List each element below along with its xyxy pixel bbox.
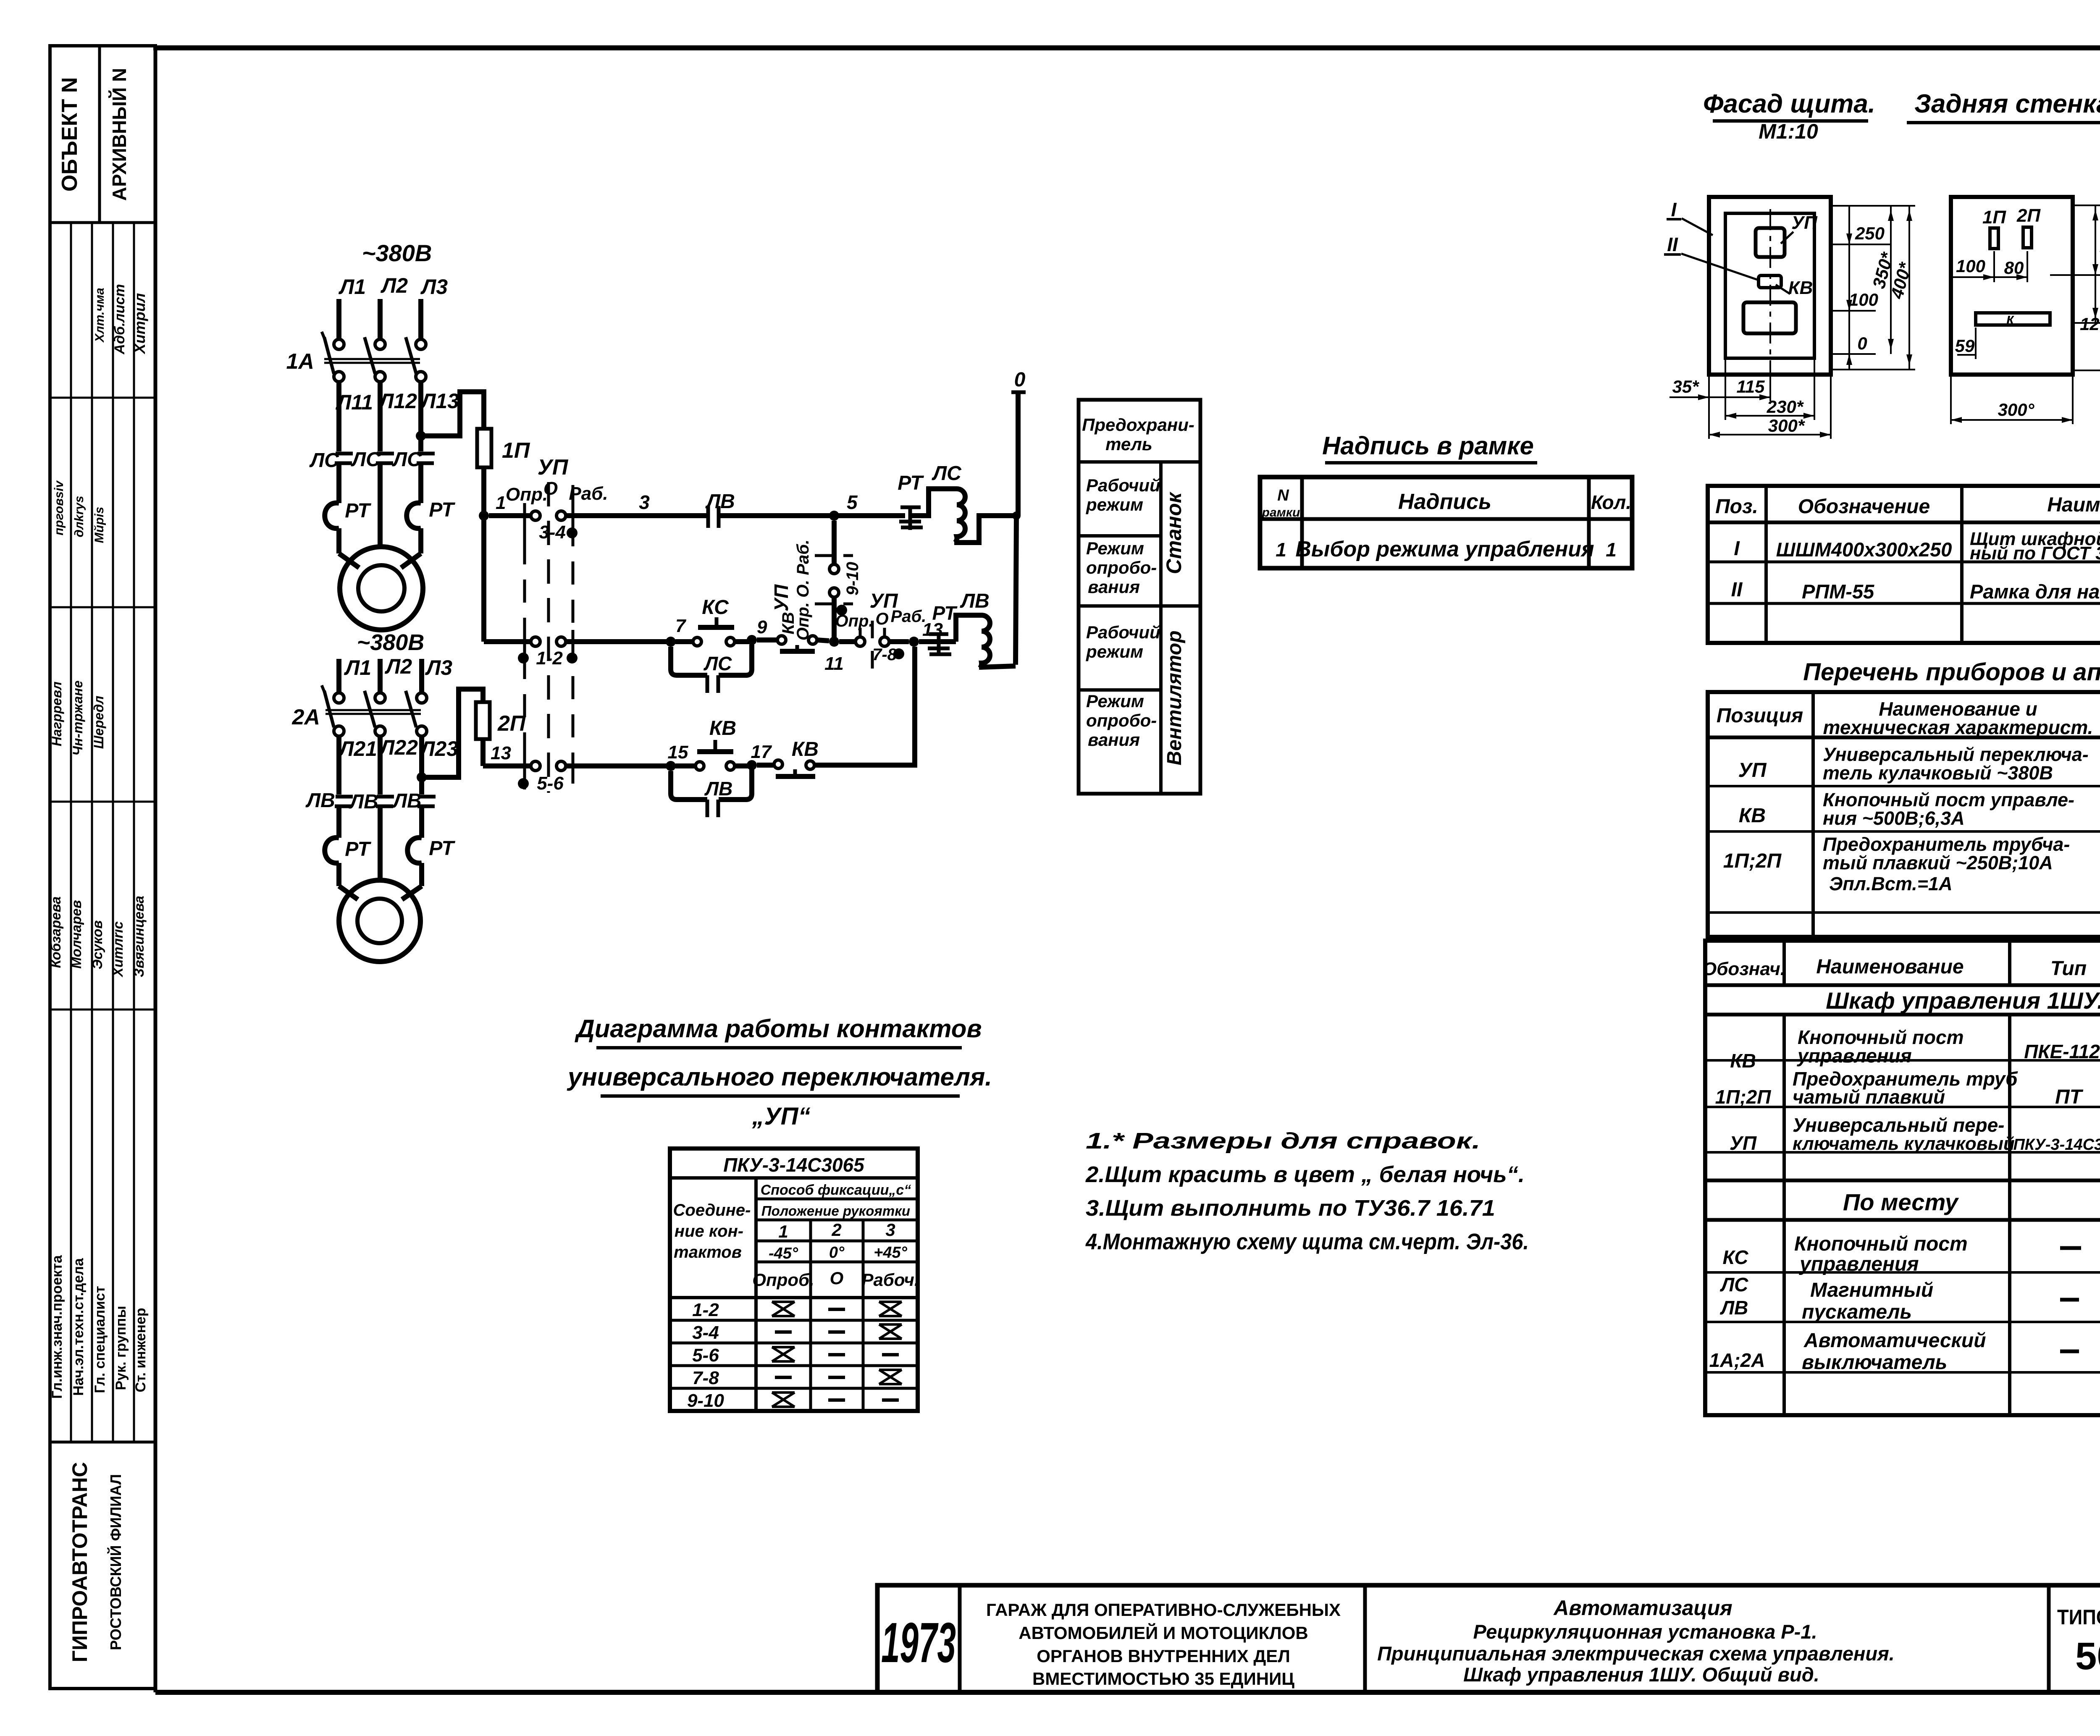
breaker 2A	[292, 685, 427, 736]
svg-text:Л1: Л1	[344, 656, 371, 679]
title facade	[1703, 89, 1875, 143]
svg-text:Л23: Л23	[419, 737, 458, 760]
svg-text:Положение рукоятки: Положение рукоятки	[761, 1203, 910, 1219]
svg-text:О: О	[543, 478, 558, 499]
svg-text:Магнитный: Магнитный	[1810, 1279, 1933, 1301]
svg-text:Рук. группы: Рук. группы	[113, 1306, 129, 1390]
coil LC	[910, 462, 1021, 543]
svg-text:Опроб.: Опроб.	[752, 1270, 814, 1290]
svg-text:тый плавкий ~250В;10А: тый плавкий ~250В;10А	[1823, 852, 2053, 873]
svg-text:КС: КС	[702, 596, 729, 619]
svg-text:Универсальный пере-: Универсальный пере-	[1793, 1114, 2005, 1136]
contact LC phase A	[309, 449, 353, 472]
svg-text:Наименование: Наименование	[2047, 494, 2100, 516]
node L13	[420, 389, 459, 413]
stamp signatures	[52, 480, 106, 543]
front panel inner	[1725, 213, 1814, 358]
svg-text:РТ: РТ	[345, 838, 371, 860]
stamp org name	[68, 1462, 124, 1663]
wire phases to LC contacts	[339, 381, 421, 451]
svg-text:УП: УП	[538, 455, 569, 480]
svg-text:КВ: КВ	[1788, 278, 1813, 298]
svg-text:5-6: 5-6	[692, 1345, 719, 1366]
contact UP 7-8	[835, 590, 926, 677]
svg-text:Л22: Л22	[379, 736, 418, 759]
spec row II	[1731, 579, 2100, 603]
perechen title	[1803, 658, 2100, 686]
svg-text:к: к	[2006, 311, 2014, 327]
svg-text:Звягинцева: Звягинцева	[131, 896, 147, 977]
svg-text:управления: управления	[1797, 1045, 1912, 1067]
svg-text:пускатель: пускатель	[1802, 1301, 1912, 1323]
svg-text:Вентилятор: Вентилятор	[1163, 630, 1186, 765]
svg-text:1: 1	[496, 493, 506, 513]
svg-text:Наименование: Наименование	[1816, 956, 1963, 978]
svg-text:Обознач.: Обознач.	[1702, 959, 1785, 979]
svg-text:Гл.инж.знач.проекта: Гл.инж.знач.проекта	[49, 1255, 65, 1399]
svg-text:Опр. О. Раб.: Опр. О. Раб.	[794, 540, 812, 640]
svg-text:3-4: 3-4	[692, 1322, 719, 1343]
POWER1	[286, 240, 484, 655]
diagram table headers	[673, 1154, 919, 1290]
svg-text:АРХИВНЫЙ N: АРХИВНЫЙ N	[108, 68, 130, 201]
svg-text:Гл. специалист: Гл. специалист	[92, 1286, 108, 1393]
svg-text:длkrys: длkrys	[72, 496, 86, 538]
POWER2	[292, 655, 483, 962]
svg-text:КВ: КВ	[709, 717, 736, 740]
wire below LV	[339, 807, 422, 880]
UP switch window	[1756, 212, 1818, 257]
legend machine test mode	[1086, 538, 1157, 597]
svg-text:17: 17	[751, 742, 772, 762]
svg-text:1П;2П: 1П;2П	[1723, 850, 1782, 872]
row LS LV	[1720, 1274, 2100, 1323]
front panel centerline	[1769, 209, 1771, 370]
svg-text:ЛС: ЛС	[309, 449, 339, 472]
node 1	[479, 493, 506, 521]
nadpis table	[1260, 477, 1632, 568]
front dims bottom	[1669, 358, 1831, 439]
LEFTSTAMP	[48, 46, 155, 1689]
svg-text:Кол.: Кол.	[1591, 491, 1631, 513]
svg-text:Л3: Л3	[425, 656, 452, 679]
legend machine work mode	[1086, 475, 1160, 514]
svg-text:2П: 2П	[497, 711, 526, 736]
svg-text:Принципиальная электрическая с: Принципиальная электрическая схема управ…	[1377, 1642, 1895, 1665]
svg-text:Шкаф управления 1ШУ. Общий вид: Шкаф управления 1ШУ. Общий вид.	[1463, 1663, 1819, 1686]
svg-text:вания: вания	[1088, 730, 1140, 750]
svg-text:1: 1	[1606, 539, 1617, 561]
svg-text:Обозначение: Обозначение	[1798, 496, 1930, 518]
perechen row UP	[1738, 744, 2100, 784]
svg-text:ПКЕ-112-2: ПКЕ-112-2	[2024, 1041, 2100, 1062]
svg-text:Надпись: Надпись	[1398, 490, 1491, 514]
svg-text:1-2: 1-2	[692, 1300, 719, 1320]
stamp entries column 1	[93, 284, 148, 354]
switch UP labels top	[506, 455, 608, 505]
CONTROL	[476, 369, 1026, 817]
svg-text:ПКУ-3-14С3065: ПКУ-3-14С3065	[2013, 1136, 2100, 1154]
svg-text:N: N	[1277, 487, 1289, 504]
svg-text:-45°: -45°	[769, 1245, 798, 1262]
svg-text:120: 120	[2080, 314, 2100, 334]
node 0	[1011, 369, 1026, 392]
wire node1 down to row2	[484, 639, 530, 644]
svg-text:Тип: Тип	[2050, 957, 2087, 980]
svg-text:Л2: Л2	[381, 274, 408, 297]
svg-text:Соедине-: Соедине-	[673, 1201, 751, 1219]
legend fan work mode	[1086, 622, 1160, 661]
contact RT machine	[898, 472, 924, 530]
svg-text:503-208: 503-208	[2075, 1635, 2100, 1678]
svg-text:ТИПОВОЙ ПРОЕКТ: ТИПОВОЙ ПРОЕКТ	[2057, 1605, 2100, 1629]
svg-text:Фасад щита.: Фасад щита.	[1703, 89, 1875, 118]
svg-text:ЛС: ЛС	[1720, 1274, 1749, 1295]
svg-text:РПМ-55: РПМ-55	[1802, 580, 1874, 603]
svg-text:Л3: Л3	[420, 275, 448, 299]
stamp names	[48, 896, 147, 978]
svg-text:9-10: 9-10	[843, 562, 862, 595]
legend fuse cell	[1082, 415, 1194, 454]
svg-text:Раб.: Раб.	[569, 483, 608, 504]
node L22	[379, 736, 418, 759]
svg-text:КВ: КВ	[792, 738, 819, 760]
stamp outer box	[50, 46, 155, 1689]
wire to node 5	[719, 513, 905, 518]
svg-text:М1:10: М1:10	[1759, 120, 1818, 143]
contact UP 5-6	[518, 754, 573, 794]
legend Stanok	[1162, 491, 1186, 574]
wire fuse to node 1	[481, 467, 486, 642]
svg-text:ЛС: ЛС	[703, 653, 732, 674]
wire to node 7	[566, 639, 671, 644]
titleblock frame	[877, 1585, 2100, 1692]
KV label window	[1759, 275, 1813, 298]
svg-text:Способ фиксации„с“: Способ фиксации„с“	[761, 1182, 911, 1198]
node L1 fan	[344, 656, 371, 679]
svg-text:ключатель кулачковый: ключатель кулачковый	[1793, 1133, 2015, 1154]
node branch to fuse 1P	[416, 392, 484, 441]
svg-text:Выбор режима упрабления: Выбор режима упрабления	[1295, 537, 1594, 561]
svg-text:15: 15	[668, 742, 688, 763]
svg-text:3.Щит выполнить по ТУ36.7 16.: 3.Щит выполнить по ТУ36.7 16.71	[1086, 1196, 1495, 1221]
svg-text:Нач.эл.техн.ст.дела: Нач.эл.техн.ст.дела	[71, 1258, 87, 1396]
svg-text:„УП“: „УП“	[752, 1103, 811, 1130]
motor M1	[340, 547, 423, 630]
svg-text:тель кулачковый ~380В: тель кулачковый ~380В	[1823, 762, 2053, 784]
svg-text:35*: 35*	[1672, 377, 1699, 396]
node ~380V motor1	[357, 630, 425, 655]
svg-text:ПКУ-3-14С3065: ПКУ-3-14С3065	[723, 1154, 865, 1176]
svg-text:Адб.лист: Адб.лист	[112, 284, 128, 354]
notes	[1085, 1128, 1529, 1254]
button KV stop row3	[757, 738, 819, 776]
back panel	[1951, 197, 2073, 375]
shkaf row UP	[1730, 1114, 2100, 1154]
shkaf row 1P2P	[1715, 1067, 2100, 1109]
back dim 300	[1951, 375, 2073, 424]
node L2	[381, 274, 408, 297]
svg-text:1-2: 1-2	[536, 648, 563, 669]
stamp job titles	[49, 1255, 149, 1399]
svg-text:тель: тель	[1105, 434, 1152, 454]
svg-text:Опр.: Опр.	[835, 612, 873, 630]
shkaf table	[1702, 941, 2100, 1415]
wire below LC	[339, 464, 421, 547]
stamp grid	[50, 223, 155, 1442]
node 7	[666, 616, 687, 647]
svg-text:115: 115	[1737, 377, 1765, 396]
svg-text:100: 100	[1956, 256, 1985, 276]
svg-text:0°: 0°	[829, 1244, 845, 1261]
svg-text:ОРГАНОВ ВНУТРЕННИХ ДЕЛ: ОРГАНОВ ВНУТРЕННИХ ДЕЛ	[1037, 1646, 1290, 1666]
svg-text:1.* Размеры для справок.: 1.* Размеры для справок.	[1086, 1128, 1480, 1154]
svg-text:КВ: КВ	[1730, 1050, 1756, 1072]
stamp entries mid	[49, 680, 106, 755]
svg-text:2.Щит красить в цвет „ белая н: 2.Щит красить в цвет „ белая ночь“.	[1085, 1162, 1525, 1187]
fuse slot 1P	[1982, 207, 2006, 249]
svg-text:ЛС: ЛС	[932, 462, 962, 485]
svg-text:Хлт.чма: Хлт.чма	[93, 288, 107, 343]
breaker 1A	[286, 332, 426, 382]
back dims right	[2050, 205, 2100, 375]
node L1	[339, 275, 366, 299]
thermal RT phase C	[401, 499, 455, 568]
perechen table	[1708, 692, 2100, 937]
button window	[1743, 302, 1796, 333]
node 13 row2	[909, 619, 943, 647]
svg-text:Задняя стенка: Задняя стенка	[1914, 89, 2100, 118]
svg-text:Чн-тржане: Чн-тржане	[70, 680, 85, 755]
svg-text:ЛВ: ЛВ	[704, 778, 733, 800]
wire 3	[566, 491, 708, 516]
svg-text:230*: 230*	[1767, 397, 1804, 417]
svg-text:техническая характерист.: техническая характерист.	[1823, 716, 2093, 738]
button KC stop	[675, 596, 752, 646]
contact LV holding	[705, 490, 735, 528]
svg-text:Мйрis: Мйрis	[92, 507, 106, 543]
svg-text:Опр.: Опр.	[506, 484, 548, 505]
svg-text:Л12: Л12	[378, 389, 417, 413]
svg-text:Шередл: Шередл	[91, 696, 106, 749]
svg-text:рамки: рамки	[1262, 506, 1300, 519]
diagram table frame	[670, 1149, 918, 1411]
svg-text:Хитлric: Хитлric	[110, 921, 126, 978]
svg-text:ЛВ: ЛВ	[305, 789, 335, 812]
svg-text:Рабочий: Рабочий	[1086, 475, 1160, 495]
spec row I	[1734, 529, 2100, 564]
stamp header ОБЪЕКТ N	[58, 77, 82, 192]
svg-text:Раб.: Раб.	[891, 607, 927, 626]
node L21	[338, 737, 377, 760]
svg-text:Перечень приборов и аппаратуры: Перечень приборов и аппаратуры	[1803, 658, 2100, 686]
svg-text:13: 13	[491, 743, 511, 763]
wire phase B drop	[378, 299, 383, 338]
svg-text:универсального переключателя.: универсального переключателя.	[567, 1063, 992, 1091]
TITLEBLOCK	[877, 1585, 2100, 1692]
contact LC phase B	[351, 448, 394, 471]
svg-text:9: 9	[757, 617, 767, 637]
svg-text:Хитрил: Хитрил	[131, 293, 148, 354]
contact RT fan	[919, 602, 958, 656]
year 1973	[881, 1611, 956, 1674]
svg-text:1П: 1П	[1982, 207, 2006, 228]
svg-text:режим: режим	[1086, 642, 1143, 661]
button KV start	[675, 717, 752, 770]
svg-text:РТ: РТ	[898, 472, 924, 494]
svg-text:2П: 2П	[2016, 205, 2041, 226]
svg-text:ГАРАЖ ДЛЯ ОПЕРАТИВНО-СЛУЖЕБНЫ: ГАРАЖ ДЛЯ ОПЕРАТИВНО-СЛУЖЕБНЫХ	[986, 1600, 1341, 1620]
FACADE	[1664, 89, 2100, 439]
wire row3 to node13	[814, 647, 915, 765]
svg-text:УП: УП	[1791, 212, 1818, 233]
svg-text:выключатель: выключатель	[1802, 1351, 1947, 1374]
svg-text:Режим: Режим	[1086, 538, 1144, 558]
thermal RT phase A	[325, 500, 371, 568]
svg-text:чатый плавкий: чатый плавкий	[1793, 1086, 1945, 1108]
node 11	[824, 637, 844, 674]
node L2 fan	[385, 655, 412, 678]
contact LC phase C	[392, 448, 435, 471]
coil LV	[956, 590, 1016, 668]
leader II	[1664, 233, 1760, 281]
node L23	[419, 737, 458, 760]
svg-text:5: 5	[847, 491, 858, 513]
svg-text:Поз.: Поз.	[1715, 496, 1758, 518]
svg-text:Молчарев: Молчарев	[68, 900, 84, 968]
svg-text:250: 250	[1855, 223, 1885, 243]
svg-text:Диаграмма работы контактов: Диаграмма работы контактов	[574, 1015, 982, 1043]
svg-text:УП: УП	[770, 584, 792, 611]
switch UP dashed position lines	[525, 482, 573, 793]
back dim 59	[1955, 328, 1976, 359]
legend fan test mode	[1086, 691, 1157, 750]
svg-text:УП: УП	[1738, 759, 1767, 781]
svg-text:О: О	[875, 610, 888, 628]
wire phase C drop	[418, 299, 423, 338]
row KC	[1723, 1232, 2100, 1282]
contact LV phase A	[305, 789, 353, 812]
svg-text:2А: 2А	[292, 705, 320, 729]
TABLES	[1260, 432, 2100, 1415]
diagram X marks	[772, 1302, 902, 1407]
svg-text:РОСТОВСКИЙ ФИЛИАЛ: РОСТОВСКИЙ ФИЛИАЛ	[107, 1474, 124, 1650]
svg-text:АВТОМОБИЛЕЙ И МОТОЦИКЛОВ: АВТОМОБИЛЕЙ И МОТОЦИКЛОВ	[1018, 1623, 1308, 1643]
perechen row 1P2P	[1723, 834, 2100, 894]
svg-text:0: 0	[1857, 333, 1867, 353]
svg-text:ный по ГОСТ 3244-68: ный по ГОСТ 3244-68	[1970, 543, 2100, 564]
svg-text:КС: КС	[1723, 1246, 1749, 1268]
legend Ventilator	[1163, 630, 1186, 765]
svg-text:~380В: ~380В	[357, 630, 425, 655]
svg-text:О: О	[830, 1268, 844, 1288]
diagram titles	[567, 1015, 992, 1130]
diagram rows	[687, 1300, 724, 1411]
switch UP 9-10 branch	[770, 521, 862, 642]
node L3	[420, 275, 448, 299]
contact LV phase B	[349, 791, 394, 813]
svg-text:1: 1	[778, 1222, 788, 1241]
svg-text:Рабочий: Рабочий	[1086, 622, 1160, 642]
svg-text:ния ~500В;6,3А: ния ~500В;6,3А	[1823, 808, 1965, 829]
project number	[2057, 1605, 2100, 1678]
svg-text:7-8: 7-8	[692, 1368, 719, 1388]
svg-text:80: 80	[2004, 258, 2024, 278]
wire fan phases to LV contacts	[339, 736, 422, 795]
shkaf row KV	[1730, 1026, 2100, 1072]
svg-text:1973: 1973	[881, 1611, 956, 1674]
back dims top	[1951, 251, 2027, 282]
svg-text:ЛВ: ЛВ	[1720, 1297, 1748, 1319]
nadpis title	[1322, 432, 1537, 463]
node 9	[747, 617, 767, 645]
svg-text:Позиция: Позиция	[1717, 705, 1803, 727]
svg-text:ОБЪЕКТ N: ОБЪЕКТ N	[58, 77, 82, 192]
contact UP 1-2	[518, 630, 577, 669]
svg-text:управления: управления	[1799, 1253, 1919, 1275]
svg-text:Кнопочный пост: Кнопочный пост	[1794, 1233, 1968, 1255]
svg-text:прговsiv: прговsiv	[52, 480, 66, 535]
svg-text:Рамка для надписи: Рамка для надписи	[1970, 580, 2100, 603]
svg-text:4.Монтажную схему щита см.черт: 4.Монтажную схему щита см.черт. Эл-36.	[1085, 1229, 1529, 1254]
svg-text:100: 100	[1849, 290, 1878, 309]
stamp header АРХИВНЫЙ N	[108, 68, 130, 201]
node L12	[378, 389, 417, 413]
svg-text:УП: УП	[1730, 1132, 1757, 1154]
legend table frame	[1079, 400, 1200, 794]
leader I	[1667, 199, 1713, 235]
node 5	[829, 491, 858, 521]
svg-text:3-4: 3-4	[539, 522, 566, 543]
svg-text:11: 11	[824, 653, 844, 674]
svg-text:ЛС: ЛС	[351, 448, 381, 471]
svg-text:9-10: 9-10	[687, 1390, 724, 1411]
motor M2	[339, 880, 420, 962]
svg-text:РТ: РТ	[345, 500, 371, 522]
wire 0 bus	[1016, 392, 1018, 665]
svg-text:Предохрани-: Предохрани-	[1082, 415, 1194, 435]
svg-text:Надпись в рамке: Надпись в рамке	[1322, 432, 1534, 460]
svg-text:300°: 300°	[1998, 400, 2035, 420]
button KV interlock row2	[757, 612, 829, 651]
node 15	[666, 742, 688, 771]
po mestu band	[1843, 1189, 1959, 1215]
svg-text:КВ: КВ	[1739, 805, 1766, 827]
svg-text:Эсуков: Эсуков	[89, 920, 105, 970]
svg-text:0: 0	[1014, 369, 1026, 391]
node ~380V top	[362, 240, 432, 266]
spec table	[1708, 486, 2100, 643]
svg-text:3: 3	[639, 491, 650, 513]
node L3 fan	[425, 656, 452, 679]
svg-text:ние кон-: ние кон-	[675, 1222, 743, 1240]
svg-text:ПТ: ПТ	[2055, 1086, 2084, 1108]
fuse 2P	[476, 702, 526, 739]
svg-text:ГИПРОАВТОТРАНС: ГИПРОАВТОТРАНС	[68, 1462, 92, 1663]
svg-text:1П: 1П	[502, 438, 530, 463]
fuse 1P	[477, 429, 530, 467]
svg-text:Рабоч.: Рабоч.	[861, 1270, 919, 1290]
front dims vertical	[1831, 206, 1915, 370]
svg-text:Автоматический: Автоматический	[1803, 1330, 1986, 1352]
LEGEND	[1079, 400, 1200, 794]
node 17	[747, 742, 772, 770]
svg-text:РТ: РТ	[429, 837, 455, 860]
contact LC holding loop	[671, 645, 752, 693]
wire fuse 2P to row3	[483, 739, 530, 766]
svg-text:~380B: ~380B	[362, 240, 432, 266]
svg-text:300*: 300*	[1768, 416, 1805, 435]
